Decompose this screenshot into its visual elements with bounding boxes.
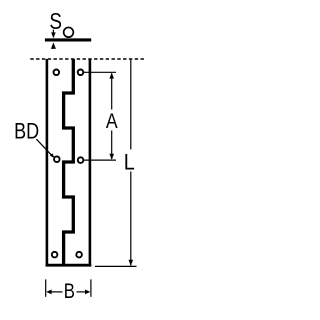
knuckle joint zigzag line: [64, 59, 74, 265]
break line (top, dashed): [30, 58, 145, 60]
svg-text:L: L: [124, 151, 135, 175]
dim S upper arrow: [51, 30, 56, 39]
dimension A line: [111, 74, 113, 160]
hole bottom-right: [76, 252, 82, 258]
extension line from top hole to A dimension: [84, 71, 116, 73]
hole bottom-left: [52, 252, 58, 258]
B extension tick left: [45, 279, 47, 296]
dimension B left arrow: [46, 290, 62, 295]
knuckle pin circle (top view): [64, 27, 74, 37]
left leaf outer edge: [46, 59, 49, 266]
bottom edge: [46, 264, 92, 267]
hole middle-left: [54, 156, 60, 162]
leaf plate (top view): [45, 38, 91, 41]
dimension A top arrow: [109, 73, 114, 79]
right leaf outer edge: [89, 59, 92, 266]
svg-text:BD: BD: [14, 120, 39, 144]
dim S lower arrow: [51, 42, 56, 49]
extension line from middle hole to A dimension: [84, 159, 116, 161]
svg-text:B: B: [64, 280, 75, 303]
hole top-right: [78, 70, 84, 76]
hole top-left: [54, 70, 60, 76]
dimension L line: [130, 60, 132, 266]
extension line from bottom edge to L dimension: [95, 265, 137, 267]
dimension L bottom arrow: [129, 260, 134, 266]
leader line from BD to middle-left hole: [36, 139, 54, 158]
dimension A bottom arrow: [109, 154, 114, 160]
B extension tick right: [90, 279, 92, 296]
dimension B right arrow: [77, 290, 91, 295]
svg-text:A: A: [106, 110, 119, 134]
svg-text:S: S: [49, 9, 62, 34]
hole middle-right: [78, 157, 84, 163]
